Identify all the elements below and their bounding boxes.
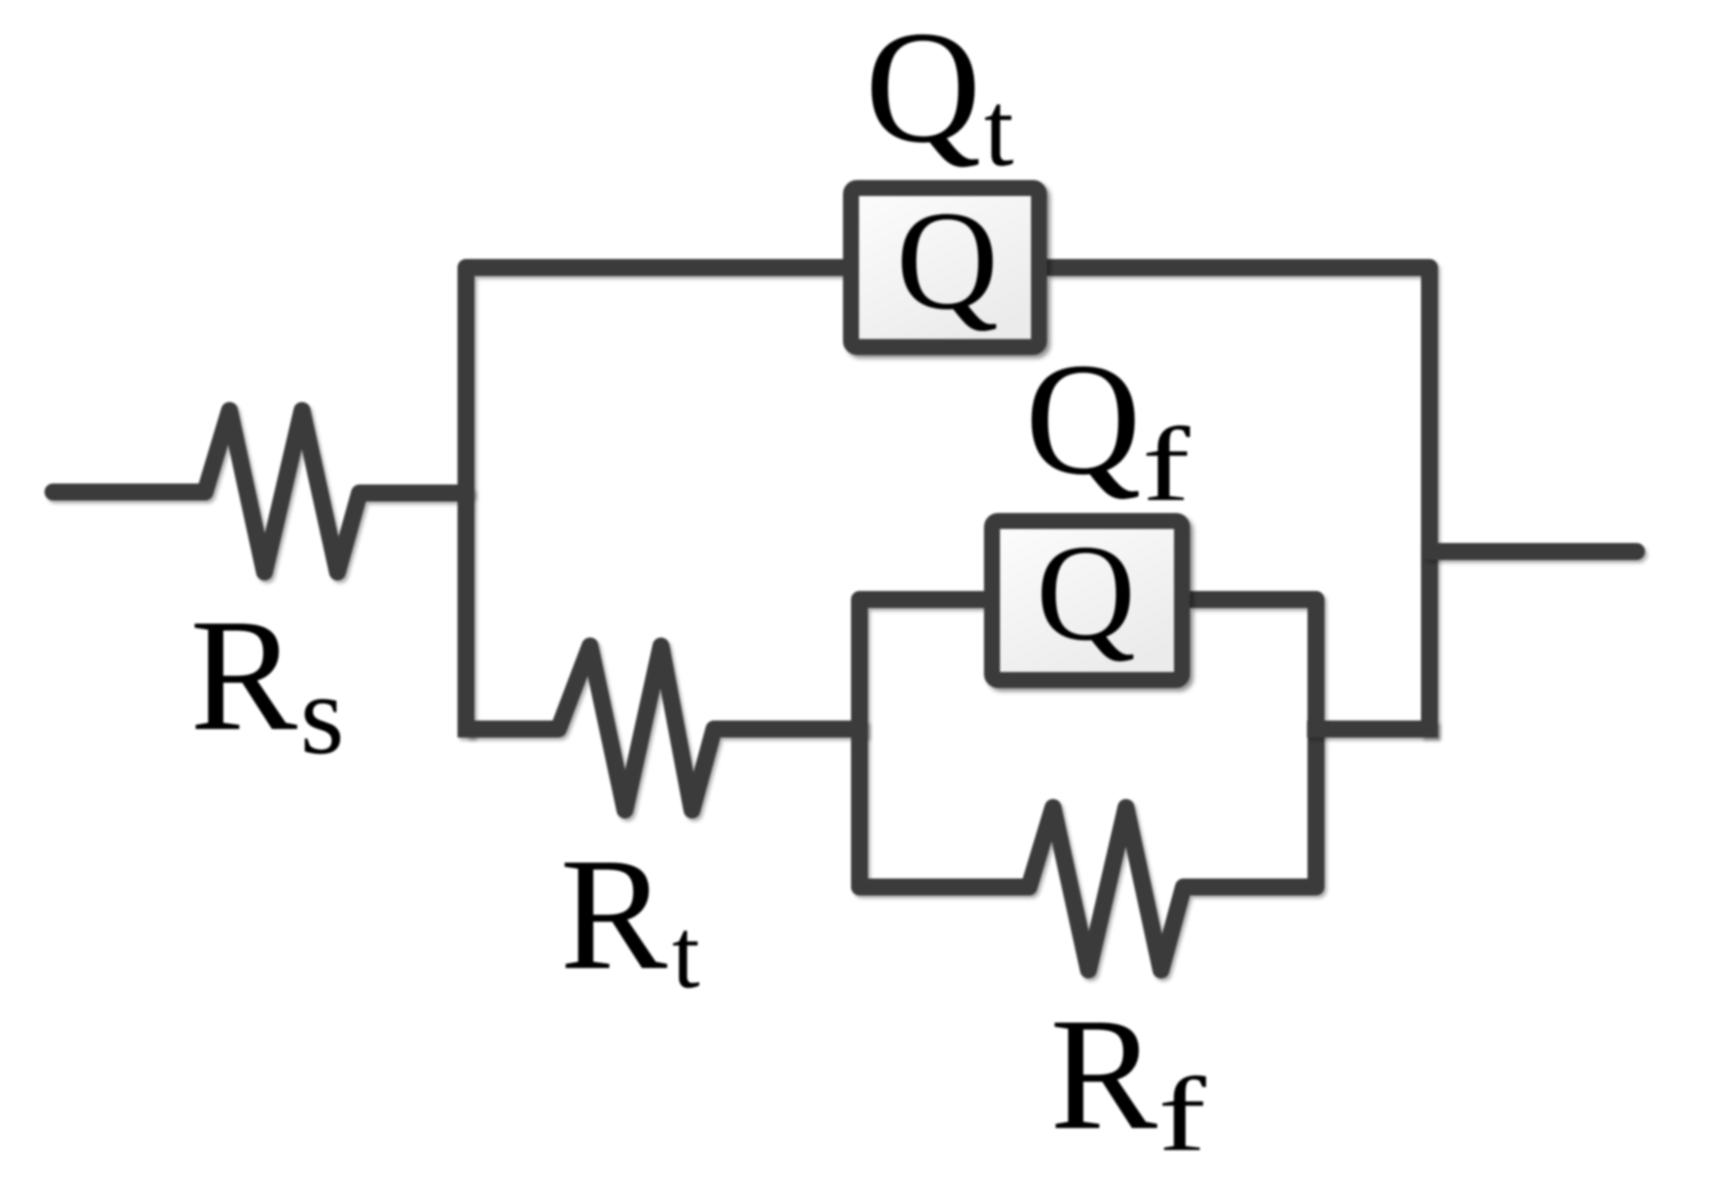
wire: top branch right segment + node B: right vertical junction bbox=[1047, 268, 1430, 738]
node A: left vertical junction + wire: top branch left segment bbox=[466, 268, 843, 738]
svg-text:Q: Q bbox=[865, 0, 981, 176]
svg-text:f: f bbox=[1142, 406, 1191, 523]
wire: parallel loop for Rf and Qf, with resistor Rf (zigzag) on bottom side bbox=[860, 600, 1317, 971]
svg-text:Q: Q bbox=[1036, 516, 1136, 669]
svg-text:f: f bbox=[1158, 1056, 1207, 1173]
wire: connector from parallel loop to node B bbox=[1307, 721, 1438, 738]
svg-text:R: R bbox=[190, 586, 298, 764]
svg-text:t: t bbox=[984, 71, 1014, 189]
wire: output lead with round end bbox=[1430, 543, 1637, 560]
wire: bottom branch + resistor Rt (zigzag) + lead to parallel loop bbox=[466, 646, 868, 810]
svg-text:Q: Q bbox=[1025, 330, 1141, 508]
wire: left input lead + resistor Rs (zigzag) + lead to node A bbox=[53, 411, 466, 573]
svg-text:t: t bbox=[672, 898, 700, 1009]
svg-text:Q: Q bbox=[896, 181, 999, 339]
CPE Qf box bbox=[992, 521, 1182, 680]
svg-text:R: R bbox=[1050, 985, 1158, 1163]
svg-text:R: R bbox=[560, 825, 668, 1003]
CPE Qt box bbox=[851, 188, 1039, 347]
svg-text:s: s bbox=[300, 651, 344, 778]
